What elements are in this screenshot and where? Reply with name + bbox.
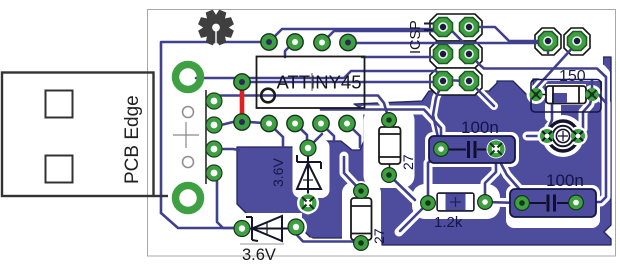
wire channel led right up: [576, 104, 590, 136]
zener D1 vertical: [297, 145, 321, 199]
wire channel icsp5 to cap1: [433, 83, 443, 147]
usb footprint line: [205, 90, 207, 184]
jumper header J2: [539, 32, 587, 51]
wire led right up: [576, 96, 592, 136]
svg-text:100n: 100n: [461, 118, 499, 137]
pad pin4: [339, 115, 355, 131]
cap C1 clearance: [425, 132, 519, 167]
wire channel 1.2k to cap2: [485, 202, 522, 203]
pad aux bottom: [234, 114, 250, 130]
cap C2 clearance: [506, 185, 600, 228]
pad pin7: [287, 34, 303, 50]
resistor R27b clearance: [342, 182, 381, 252]
wire channel cap2 right: [576, 94, 606, 202]
resistor 150 body clearance: [546, 84, 586, 105]
wire channel R27b bottom: [357, 236, 366, 250]
wire box top to icsp: [362, 55, 443, 57]
board frame: [148, 10, 616, 257]
wire attiny row to cap1: [321, 110, 441, 150]
wire pin strap: [242, 81, 443, 82]
usb contact square 2: [46, 156, 73, 183]
wire pin8 to icsp: [269, 27, 443, 42]
resistor 1.2k clearance: [412, 184, 500, 219]
pad d2a: [234, 221, 250, 237]
wire channel 1.2k left down: [399, 203, 428, 232]
fiducial cross: [173, 122, 199, 148]
pad d2b: [288, 219, 304, 235]
resistor R27a clearance: [364, 108, 415, 188]
wire 150 right pad up: [591, 80, 594, 94]
svg-text:3.6V: 3.6V: [242, 246, 276, 264]
pad USB1: [206, 93, 222, 109]
wire usb d+ down: [214, 173, 241, 228]
header J1 outline: [430, 14, 482, 95]
wire cap1 left to 1.2k left: [428, 149, 441, 203]
pad r2a: [354, 184, 369, 199]
wire pin5 to header: [349, 41, 548, 43]
blue traces: [161, 27, 606, 243]
pad pin8: [261, 34, 277, 50]
pad icsp2: [460, 18, 479, 37]
silkscreen divider: [311, 73, 313, 91]
ground pour main: [237, 57, 611, 245]
pad icsp1: [434, 18, 453, 37]
pad r3a: [529, 88, 542, 101]
white gap over pour near header J2: [533, 24, 593, 57]
LED clearance: [542, 115, 584, 157]
pad c2b: [569, 195, 584, 210]
wire R27b top: [344, 157, 361, 191]
svg-text:1.2k: 1.2k: [434, 214, 463, 231]
pad icsp4: [460, 45, 479, 64]
wire icsp4 right rail: [469, 54, 606, 103]
pad j2b: [568, 32, 587, 51]
wire channel zener1 bottom pad: [304, 199, 313, 210]
wire pin7 down: [285, 42, 294, 57]
wire channel cap2 to cap1 xpad: [496, 153, 522, 199]
wire pin1 diag: [269, 124, 283, 147]
wire cap2 right up to 150: [576, 94, 606, 202]
wire channel d2 pad exit: [296, 228, 310, 242]
zener D1 clearance: [293, 139, 330, 198]
wire cap1 right to 1.2k right: [485, 149, 496, 202]
wire channel zener1 top diag: [306, 134, 322, 150]
wire pin3 diag: [321, 124, 334, 143]
pad d1a: [300, 140, 316, 156]
pad r3a clearance: [527, 85, 546, 104]
wire pin4 diag: [347, 124, 360, 148]
wire usb V+ left rail: [161, 42, 269, 213]
pad r3b: [585, 88, 598, 101]
pad r4b: [478, 195, 493, 210]
svg-text:27: 27: [371, 228, 387, 244]
wire d2 to r27b pad: [296, 227, 358, 243]
ICSP header J1: [434, 18, 479, 91]
wire channel led left: [527, 132, 548, 141]
capacitor C2: [510, 171, 596, 217]
wire zener1 pad diag: [308, 134, 322, 148]
usb contact square 1: [46, 91, 73, 118]
zener D2 clearance: [233, 213, 302, 247]
wire cap2 to cap1 xpad: [496, 151, 522, 203]
pad c1a: [434, 142, 449, 157]
capacitor C1: [429, 118, 515, 163]
red jumper wire: [240, 83, 245, 121]
wire channel right rail: [596, 69, 606, 101]
wire bottom row strap: [214, 121, 269, 125]
pad c1b thermal: [487, 140, 506, 159]
pad r1a: [382, 113, 397, 128]
gear icon: [193, 4, 240, 51]
svg-text:ATTINY45: ATTINY45: [277, 72, 362, 93]
diode D2 underline: [240, 243, 284, 245]
pad pin1: [261, 115, 277, 131]
pad icsp6: [460, 72, 479, 91]
pad c2a: [515, 196, 530, 211]
pad r2b: [354, 236, 369, 251]
mount pad big bottom: [176, 186, 201, 211]
svg-text:100n: 100n: [546, 171, 584, 190]
header J2 outline: [535, 28, 590, 55]
mount pad big top: [176, 65, 201, 90]
pad d2b clearance: [285, 216, 307, 238]
pad icsp5 clearance: [431, 69, 455, 93]
wire gnd mid: [196, 71, 466, 81]
pad d1b clearance: [297, 192, 319, 214]
pad icsp6 clearance: [457, 69, 481, 93]
white tongue below 150: [545, 100, 561, 122]
pad USB3: [206, 141, 222, 157]
resistor 27 R2 vertical: [351, 184, 387, 251]
pads: ATTINY45: [234, 34, 356, 132]
svg-text:150: 150: [559, 68, 586, 85]
wire R27a bottom: [390, 176, 415, 200]
pad r2b clearance: [350, 232, 372, 254]
resistor 150 R3: [529, 68, 601, 112]
wire 1.2k to cap2: [485, 202, 522, 203]
wire usb d-: [214, 149, 239, 150]
pin1 circle: [261, 89, 275, 103]
wire through chip: [214, 96, 389, 121]
pad d1a clearance: [297, 137, 320, 160]
pad pin2: [287, 115, 303, 131]
pad led b: [571, 129, 585, 143]
wire channel j2 diag: [536, 45, 575, 88]
hole marker top: [183, 107, 194, 118]
wire pin2 diag: [295, 124, 307, 143]
svg-text:3.6V: 3.6V: [270, 158, 286, 187]
wire channel icsp6 down: [474, 86, 494, 106]
wire channel R27a to cap1: [364, 110, 441, 149]
svg-text:ICSP: ICSP: [408, 20, 424, 54]
wire left rail bottom to D2: [161, 213, 241, 228]
USB plug shell: [2, 73, 168, 197]
pad r1b: [382, 168, 397, 183]
pad icsp5: [434, 72, 453, 91]
ATTINY45 outline U1: [257, 57, 365, 109]
pad USB2: [206, 117, 222, 133]
pad r4a: [421, 196, 436, 211]
pad USB4: [206, 165, 222, 181]
wire pin6 to icsp: [322, 31, 467, 50]
icsp stub marks: [424, 24, 433, 31]
pad icsp3: [434, 45, 453, 64]
svg-text:PCB Edge: PCB Edge: [122, 95, 143, 184]
svg-text:27: 27: [400, 154, 416, 170]
pad pin5: [340, 34, 356, 50]
pad aux top: [234, 74, 250, 90]
wire channel R27b top up: [344, 156, 361, 191]
wire header diag to 150: [536, 45, 575, 88]
pad r3b clearance: [583, 85, 602, 104]
wire channel cap1 right to 1.2k right: [485, 149, 496, 202]
wire led left: [527, 135, 548, 138]
wire channel clearances (white) in pour: [296, 45, 606, 250]
pad pin3: [313, 115, 329, 131]
zener D2 horizontal: [244, 216, 294, 241]
wire icsp5 to cap1: [433, 81, 443, 149]
pad j2a: [539, 32, 558, 51]
resistor 27 R1 vertical: [379, 113, 416, 183]
wire icsp2 to j2: [469, 27, 542, 41]
pad d1b thermal: [299, 194, 318, 213]
wire icsp6 down: [469, 81, 494, 106]
wire 150 to led: [549, 104, 552, 127]
pads: usb column: [206, 93, 222, 181]
pad pin6: [314, 34, 330, 50]
wire channel R27a bottom down: [390, 176, 414, 199]
wire channel attiny to R1 top: [378, 96, 389, 121]
pad r1b clearance: [379, 165, 399, 185]
LED D3: [538, 121, 588, 151]
wire header stub: [547, 43, 550, 53]
resistor 1.2k R4: [421, 193, 493, 231]
wire channel cap1 left to 1.2k: [428, 149, 441, 203]
wire 1.2k left down: [400, 203, 428, 231]
pad r2a clearance: [351, 181, 371, 201]
pad led a: [540, 129, 554, 143]
hole marker bottom: [183, 157, 194, 168]
